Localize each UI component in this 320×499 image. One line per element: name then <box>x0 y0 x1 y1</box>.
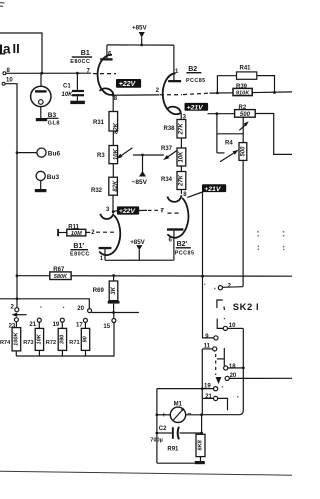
node junction 85V rail <box>140 44 143 47</box>
node pin 8 (jack) <box>3 68 11 75</box>
wire R39 right to edge <box>252 91 292 94</box>
svg-text:10M: 10M <box>71 231 82 237</box>
tube B1 (E80CC, triode a) <box>70 45 118 102</box>
svg-text:10K: 10K <box>113 148 119 160</box>
node junction left rail / bus <box>16 274 19 277</box>
svg-text:C2: C2 <box>159 426 167 432</box>
svg-text:+21V: +21V <box>204 186 222 193</box>
voltage +22V (B1' cathode) <box>113 206 139 215</box>
svg-text:E80CC: E80CC <box>70 251 90 257</box>
wire B1 cathode to B2 grid <box>113 93 233 95</box>
svg-text:−85V: −85V <box>132 179 148 186</box>
tube B1' (E80CC, triode b) <box>70 207 120 262</box>
svg-text:20: 20 <box>77 306 84 312</box>
node contact 19 <box>53 318 65 328</box>
switch wiper arrow left <box>12 313 27 317</box>
svg-text:19: 19 <box>53 322 60 328</box>
svg-text:21: 21 <box>29 322 36 328</box>
resistor R67 580K <box>50 267 71 280</box>
node junction meter line <box>156 413 159 416</box>
voltage +21V (B2' cathode) <box>187 184 226 197</box>
svg-text:R41: R41 <box>240 65 252 71</box>
ground B3 <box>36 118 47 121</box>
svg-text:82K: 82K <box>113 180 119 192</box>
wire SK2 right vertical <box>242 328 244 410</box>
wire R41 left leg <box>217 76 236 93</box>
node SK2 contact 11 <box>202 343 216 351</box>
wire meter loop bottom <box>157 462 199 464</box>
wire +21V down to SK2 contact 9 <box>203 192 214 338</box>
wire +21V to R2 <box>208 113 235 115</box>
wire R3-R32 <box>112 164 114 178</box>
wire meter loop left vertical <box>156 389 158 464</box>
socket Bu3 <box>36 171 59 189</box>
capacitor C1 <box>62 73 85 101</box>
resistor R69 3K <box>93 276 118 301</box>
node pin 10 (jack) <box>2 78 13 86</box>
node junction R41/R39 left <box>216 92 219 95</box>
node specks row <box>40 306 64 308</box>
resistor R34 27K <box>161 172 186 190</box>
node junction box/wire <box>40 72 43 75</box>
wire R34 to B2' cathode <box>181 190 187 198</box>
node junction +21V line / bus <box>201 275 204 278</box>
resistor R38 27K <box>164 120 186 139</box>
wire R31-R3 <box>112 131 114 146</box>
svg-text:B1′: B1′ <box>73 243 84 250</box>
wire R41 right leg <box>257 76 275 93</box>
svg-text:II: II <box>13 41 20 56</box>
wire R37-R34 <box>180 166 182 172</box>
svg-text:+: + <box>162 412 166 419</box>
svg-text:390: 390 <box>60 334 66 344</box>
node SK2 contact 21 <box>202 394 227 410</box>
svg-text:R71: R71 <box>69 340 79 346</box>
svg-text:90: 90 <box>83 335 89 342</box>
svg-text:10: 10 <box>6 78 13 84</box>
resistor R73 10K <box>23 328 43 356</box>
node registration dots right <box>257 231 285 251</box>
wire +85V rail top <box>107 44 174 46</box>
terminal bar R11 input <box>57 229 59 236</box>
svg-text:700µ: 700µ <box>150 438 163 444</box>
tube B2' (PCC85, triode b) <box>161 195 195 260</box>
svg-text:R69: R69 <box>93 288 105 294</box>
node junction meter / R91 rail <box>200 413 203 416</box>
wire contact 20 to right edge <box>229 377 292 379</box>
resistor R31 82K <box>93 95 119 134</box>
wire wiper tie line <box>217 114 243 153</box>
wire SK2 left vertical lower <box>201 349 203 415</box>
power +85V lower <box>130 239 145 260</box>
potentiometer R3 10K <box>97 146 132 164</box>
node junction C1 <box>76 72 79 75</box>
wire R91 top <box>201 415 203 435</box>
node SK2 contact 9 <box>205 334 218 340</box>
svg-text:C1: C1 <box>63 84 71 90</box>
svg-text:R32: R32 <box>91 188 103 194</box>
node contact 15 <box>103 313 116 331</box>
ground bar R69 <box>108 301 120 313</box>
unit label "a II" (partial) <box>0 41 20 56</box>
wire wiper R3 to wiper R37 (-85V line) <box>133 154 164 156</box>
node junction R41/R39 right <box>273 91 276 94</box>
wire bus3 y312 <box>92 312 139 314</box>
node contact 2 (left) <box>11 304 19 311</box>
svg-text:10K: 10K <box>62 92 74 98</box>
ground Bu3 <box>35 189 47 192</box>
resistor R74 100K <box>0 328 21 356</box>
corner scan mark <box>0 3 5 7</box>
svg-text:3K: 3K <box>111 286 117 294</box>
capacitor C2 700u <box>150 426 201 443</box>
unit box (tuner, cut at left edge) <box>0 33 42 73</box>
svg-text:PCC85: PCC85 <box>175 251 195 257</box>
svg-text:SK2 I: SK2 I <box>233 301 259 312</box>
wire R4 down to SK2 contact 2 <box>242 160 244 286</box>
svg-text:910K: 910K <box>236 91 250 97</box>
wire long bus y276 <box>17 275 292 278</box>
svg-text:R91: R91 <box>167 446 179 452</box>
node SK2 contact 20 <box>225 373 237 381</box>
resistor R41 <box>237 65 257 79</box>
svg-text:500: 500 <box>240 146 246 157</box>
node contact 21 <box>29 318 41 328</box>
voltage +21V (B2 cathode) <box>185 103 209 112</box>
resistor R32 82K <box>91 177 119 195</box>
potentiometer R4 500 <box>220 141 247 162</box>
svg-text:82K: 82K <box>113 122 119 134</box>
svg-text:R37: R37 <box>161 146 173 152</box>
wire pin8 to grid B1 <box>6 72 91 74</box>
resistor R11 10M <box>59 225 90 237</box>
node junction C2 / R91 <box>200 432 203 435</box>
wire +22V to B2' grid <box>139 209 162 211</box>
svg-text:R3: R3 <box>97 153 105 159</box>
switch shaft dashed <box>216 354 222 384</box>
wire pin10 down left rail <box>5 84 17 308</box>
node SK2 contact 10 <box>223 323 243 331</box>
node contact 23 <box>9 318 19 330</box>
svg-text:R38: R38 <box>164 126 176 132</box>
svg-text:10K: 10K <box>179 151 185 163</box>
meter M1 <box>157 402 202 423</box>
power -85V <box>132 154 148 186</box>
potentiometer R2 500 <box>235 105 256 130</box>
voltage +22V (B1 cathode) <box>116 79 141 88</box>
svg-text:a: a <box>3 42 11 57</box>
wire R2 right to edge <box>255 114 292 155</box>
node SK2 contact 19 <box>204 384 218 391</box>
wire bus4 resistor commons <box>16 323 114 357</box>
svg-text:+85V: +85V <box>132 25 147 32</box>
svg-text:27K: 27K <box>179 123 185 136</box>
svg-text:GL8: GL8 <box>48 120 61 126</box>
resistor R91 6K8 <box>167 434 205 461</box>
svg-text:Bu6: Bu6 <box>48 151 61 158</box>
svg-text:R72: R72 <box>46 340 56 346</box>
power +85V top <box>132 25 147 45</box>
svg-text:18: 18 <box>229 364 236 370</box>
node junction R2 wiper net <box>216 112 219 115</box>
wire R32 to B1' cathode <box>112 195 114 211</box>
svg-text:E80CC: E80CC <box>70 59 90 65</box>
node junction R69 / bus <box>112 274 115 277</box>
svg-text:+21V: +21V <box>187 105 205 112</box>
node B1 cathode junction <box>112 94 115 97</box>
svg-text:+85V: +85V <box>130 239 145 246</box>
node junction R69 / bus3 <box>112 311 115 314</box>
wire R2 bottom to R4 top <box>242 117 244 142</box>
svg-text:27K: 27K <box>179 174 185 187</box>
ground bar R91 <box>195 461 205 464</box>
svg-text:R73: R73 <box>23 340 33 346</box>
wire bus2 y299 <box>0 299 89 309</box>
node specks SK2 <box>204 284 239 398</box>
wire page rule bottom <box>0 471 292 475</box>
svg-text:R4: R4 <box>225 141 233 147</box>
switch bracket mark <box>217 300 225 310</box>
node junction left rail / bus2 <box>16 297 19 300</box>
svg-text:PCC85: PCC85 <box>186 78 206 84</box>
svg-text:10K: 10K <box>37 333 43 344</box>
wire R38-R37 <box>180 138 182 148</box>
svg-text:17: 17 <box>76 323 83 329</box>
svg-text:+22V: +22V <box>119 81 137 88</box>
node B1' cathode junction <box>112 210 115 213</box>
svg-text:Bu3: Bu3 <box>47 174 60 181</box>
ground C1 <box>70 101 85 104</box>
node contact 20 (left) <box>77 306 91 312</box>
resistor R39 910K <box>233 84 252 97</box>
wire SK2 bottom frame <box>202 410 244 414</box>
socket Bu6 <box>16 148 61 158</box>
svg-text:6K8: 6K8 <box>198 439 204 450</box>
potentiometer R37 10K <box>161 146 186 166</box>
tube B3 GL8 <box>31 73 61 126</box>
wire lower anode rail <box>105 259 174 261</box>
node junction C2 line <box>156 432 159 435</box>
svg-text:+22V: +22V <box>119 208 137 215</box>
svg-text:21: 21 <box>205 394 212 400</box>
svg-text:B1: B1 <box>81 50 90 57</box>
resistor R71 90 <box>69 328 89 356</box>
wire meter line to contact 19 <box>157 388 214 390</box>
node SK2 contact 18 <box>217 348 245 370</box>
svg-text:R74: R74 <box>0 340 11 346</box>
tube B2 (PCC85, triode a) <box>156 45 206 120</box>
svg-text:100K: 100K <box>14 332 20 346</box>
node contact 17 <box>76 318 87 328</box>
node junction contact rail / 19 row <box>201 387 204 390</box>
resistor R72 390 <box>46 328 67 356</box>
wire SK2 feed contact 10 <box>217 319 223 329</box>
svg-text:R31: R31 <box>93 120 105 126</box>
svg-text:15: 15 <box>103 324 110 330</box>
svg-text:R34: R34 <box>161 177 173 183</box>
svg-text:500: 500 <box>240 112 251 118</box>
svg-text:580K: 580K <box>54 274 68 280</box>
node SK2 contact 2 <box>218 283 243 290</box>
